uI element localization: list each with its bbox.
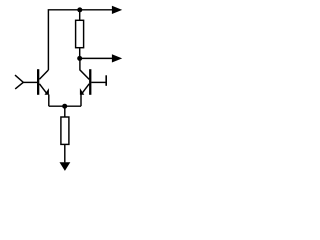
wire: Q2 collector lead (vertical then diagonal into bar) xyxy=(80,58,89,79)
node: junction dot2 at R1 bottom / OUT2 xyxy=(77,56,82,61)
Q1 collector diagonal xyxy=(39,70,48,79)
terminal tick at Q2 base xyxy=(105,75,107,86)
Q1 base lead xyxy=(23,81,37,83)
Q1 emitter diagonal xyxy=(39,84,47,95)
transistor Q2 (right NPN, mirrored) xyxy=(80,69,106,95)
wire: common emitter rail xyxy=(49,105,81,107)
wire: dot3 to R2 top xyxy=(64,106,66,117)
resistor R1 xyxy=(76,20,84,47)
wire: top supply rail with left drop to Q1 collector xyxy=(48,10,112,70)
transistor Q1 (left NPN) xyxy=(23,69,49,95)
Q1 emitter arrowhead xyxy=(45,88,49,95)
Q1 base bar xyxy=(37,69,39,95)
output arrow OUT1 (right, filled) xyxy=(112,6,122,14)
wire: R1 bottom to node dot2 xyxy=(79,48,81,59)
Q2 emitter arrowhead xyxy=(80,88,84,95)
resistor R2 xyxy=(61,117,69,144)
Q2 base lead xyxy=(91,81,106,83)
input arrow (open) at Q1 base xyxy=(15,75,23,89)
wire: R2 bottom to sink arrow xyxy=(64,144,66,162)
wire: Q1 emitter vertical to common rail xyxy=(48,95,50,107)
wire: dot2 to OUT2 arrow xyxy=(80,57,112,59)
output arrow OUT2 (right, filled) xyxy=(112,54,122,62)
node: junction dot at rail / R1 top xyxy=(77,7,82,12)
Q2 base bar xyxy=(89,69,91,95)
wire: dot to R1 top xyxy=(79,10,81,20)
wire: Q2 emitter vertical to common rail xyxy=(80,95,82,107)
node: junction dot3 at emitter rail / R2 xyxy=(62,104,67,109)
Q2 emitter diagonal xyxy=(81,84,89,95)
output arrow (down, filled) current sink xyxy=(60,162,71,171)
